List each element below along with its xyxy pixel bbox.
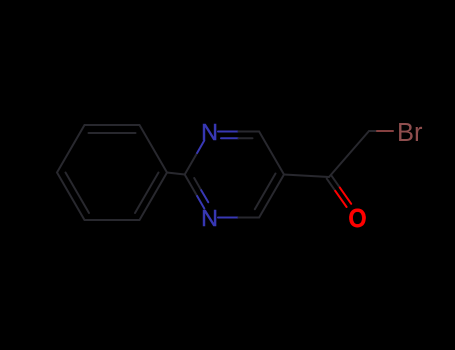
wire N3-C4: [218, 217, 239, 219]
wire C5-C(=O): [284, 175, 329, 178]
wire CH2-Br: [369, 130, 377, 132]
wire C2-N1: [185, 153, 197, 175]
wire C(=O)-CH2: [329, 131, 369, 177]
svg-text:O: O: [348, 205, 366, 233]
wire N1=C6 (double): [218, 131, 239, 133]
wire C4=C5 (double): [259, 175, 284, 218]
svg-text:N: N: [201, 119, 218, 145]
phenyl ring C6H5: [57, 125, 167, 220]
carbonyl C=O double bond: [327, 175, 352, 207]
pyrimidine ring: [185, 132, 284, 218]
wire C5-C6: [259, 132, 284, 175]
svg-text:N: N: [201, 205, 218, 231]
svg-text:Br: Br: [397, 119, 423, 147]
wire phenyl-C2: [167, 173, 185, 175]
wire C2=N3 (double): [185, 175, 197, 197]
